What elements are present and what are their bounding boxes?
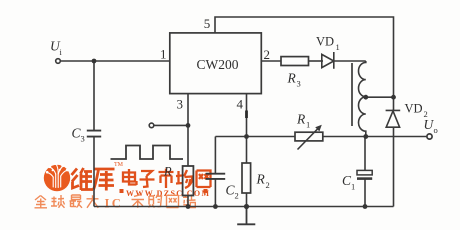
wire C1 branch bbox=[364, 137, 366, 171]
resistor R2 bbox=[242, 163, 251, 193]
inductor L coil bbox=[359, 61, 366, 136]
rheostat R1 bbox=[295, 132, 323, 141]
wire C3 branch down bbox=[93, 61, 95, 130]
pin 2 wire bbox=[261, 60, 281, 62]
resistor R below pin3 bbox=[183, 166, 194, 196]
电子市场网 bbox=[123, 169, 211, 189]
svg-text:I: I bbox=[105, 197, 110, 211]
inductor core bbox=[351, 63, 353, 126]
wire output line bbox=[215, 136, 426, 138]
wire C2 to rail bbox=[214, 179, 216, 207]
node VD2 top bbox=[391, 95, 396, 100]
svg-text:5: 5 bbox=[204, 16, 211, 31]
capacitor C1 plate bottom bbox=[357, 177, 372, 180]
node C2 rail bbox=[213, 204, 218, 209]
svg-text:R: R bbox=[163, 165, 172, 179]
terminal Uo bbox=[427, 134, 432, 139]
node Ui/C3 bbox=[92, 59, 97, 64]
wire R3 to VD1 bbox=[309, 60, 324, 62]
svg-text:3: 3 bbox=[177, 97, 184, 112]
svg-text:1: 1 bbox=[306, 120, 310, 130]
node C1 rail bbox=[363, 204, 368, 209]
wire circle to pin3 bbox=[154, 124, 188, 126]
wire Ui to pin1 bbox=[61, 60, 170, 62]
diode VD2 bbox=[386, 110, 401, 127]
node dots bbox=[92, 59, 396, 210]
pin 4 wire thick mark bbox=[245, 111, 248, 119]
resistor R3 bbox=[281, 57, 309, 66]
svg-text:o: o bbox=[434, 125, 438, 135]
svg-text:4: 4 bbox=[237, 97, 244, 112]
svg-text:1: 1 bbox=[351, 182, 355, 192]
pin 3 wire bbox=[187, 94, 189, 166]
svg-text:WWW.DZSC.COM: WWW.DZSC.COM bbox=[126, 189, 210, 198]
wire R to rail bbox=[187, 196, 189, 207]
svg-text:3: 3 bbox=[81, 134, 85, 144]
wire C3 to rail bbox=[93, 137, 95, 207]
wire VD1 to coil bbox=[334, 60, 366, 62]
capacitor C2 bbox=[206, 174, 226, 179]
svg-text:R: R bbox=[287, 71, 297, 86]
node coil bottom bbox=[363, 134, 368, 139]
ground bbox=[237, 207, 255, 225]
watermark bbox=[35, 162, 211, 211]
svg-text:R: R bbox=[296, 112, 306, 127]
arrow R1 bbox=[298, 128, 320, 150]
node coil tap bbox=[363, 95, 368, 100]
svg-text:R: R bbox=[256, 172, 266, 187]
node R2 rail bbox=[244, 204, 249, 209]
diode VD1 bbox=[322, 52, 334, 69]
node R rail bbox=[186, 204, 191, 209]
wire VD2 cathode bbox=[393, 97, 395, 110]
pin 5 wire bbox=[215, 17, 394, 97]
node pin4/output line bbox=[244, 134, 249, 139]
svg-text:TM: TM bbox=[114, 162, 124, 168]
svg-text:2: 2 bbox=[266, 180, 270, 190]
svg-text:CW200: CW200 bbox=[197, 57, 239, 72]
svg-text:1: 1 bbox=[336, 42, 340, 52]
IC U1 CW200 bbox=[170, 33, 261, 94]
ground rail wire bbox=[94, 206, 394, 208]
bottom row bbox=[35, 195, 196, 208]
svg-text:VD: VD bbox=[405, 102, 423, 116]
capacitor C3 bbox=[87, 131, 101, 137]
svg-text:1: 1 bbox=[160, 47, 167, 62]
www.dzsc.com bbox=[120, 189, 211, 198]
square wave symbol bbox=[111, 146, 184, 160]
svg-text:2: 2 bbox=[264, 47, 271, 62]
wire C1 to rail bbox=[364, 179, 366, 207]
big 维库 bbox=[72, 168, 115, 191]
svg-text:2: 2 bbox=[235, 191, 239, 201]
svg-text:3: 3 bbox=[297, 79, 301, 89]
wire C2 branch bbox=[214, 137, 216, 174]
terminal Ui bbox=[56, 59, 61, 64]
capacitor C1 plate top bbox=[357, 170, 372, 175]
pin 4 wire bbox=[246, 94, 248, 163]
node pin3/input bbox=[186, 123, 191, 128]
wire R2 to rail bbox=[246, 193, 248, 207]
wire VD2 anode down bbox=[393, 127, 395, 206]
svg-text:C: C bbox=[112, 197, 121, 211]
svg-text:VD: VD bbox=[316, 35, 334, 49]
terminal square-wave input bbox=[149, 123, 154, 128]
wire tap to VD2 node bbox=[366, 96, 394, 98]
